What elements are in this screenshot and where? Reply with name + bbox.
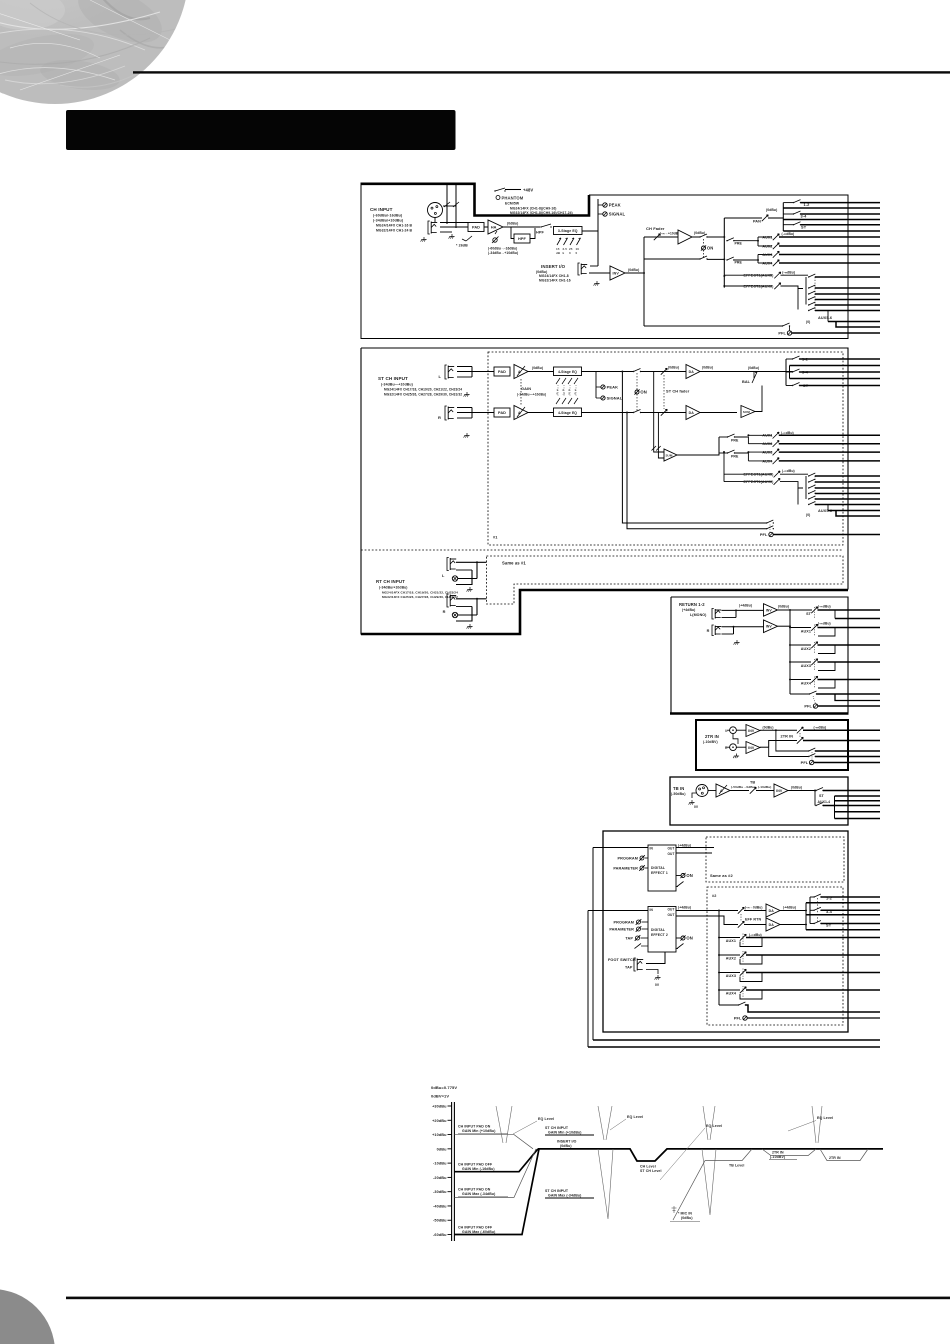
block HPF [514, 234, 530, 243]
ON indicator E2 [680, 935, 692, 940]
svg-text:(0dBu): (0dBu) [532, 366, 543, 370]
svg-text:(-∞dBu): (-∞dBu) [782, 469, 795, 473]
svg-text:(0dBu): (0dBu) [681, 1216, 693, 1220]
wire ST AUX3 row [748, 451, 772, 453]
svg-text:HPF: HPF [518, 237, 526, 241]
pot 2TR R [797, 737, 803, 743]
wire EFF AUX1 bus [746, 937, 880, 939]
wire 2tr gang [799, 733, 801, 738]
grey EQ excursion mic [703, 1106, 708, 1140]
wire TB aux bus 3 [835, 811, 881, 813]
wire bus 1-2 feed [783, 207, 880, 209]
switch ST ON indicator [634, 389, 646, 394]
svg-text:(0dBu): (0dBu) [702, 366, 713, 370]
pot ST AUX4 send [773, 458, 779, 464]
svg-text:* 26dB: * 26dB [456, 244, 468, 248]
pot ST AUX2 send [773, 441, 779, 447]
svg-text:AUX3: AUX3 [762, 451, 772, 455]
svg-text:(+4dBu): (+4dBu) [682, 608, 695, 612]
wire HPF to switch [530, 228, 535, 239]
block 3-Stage EQ [554, 227, 583, 235]
pot ST fader L [661, 368, 667, 374]
wire sum mono out [677, 437, 719, 455]
TB IN section box [670, 777, 848, 825]
wire ST bus tail2 [836, 511, 880, 517]
svg-text:ST: ST [819, 794, 825, 798]
wire EFF AUX3 row [719, 972, 740, 974]
pot ST AUX3 send [773, 449, 779, 455]
pot EFF AUX3 [740, 969, 746, 975]
grey trace TB level [673, 1149, 752, 1220]
svg-text:OUT: OUT [667, 908, 674, 912]
level trace pad on gain max grey [454, 1149, 536, 1198]
block 4-Stage EQ R [554, 408, 582, 417]
svg-text:2TR IN: 2TR IN [772, 1151, 784, 1155]
wire E1 feed bus [593, 1039, 880, 1041]
wire RT L ring [456, 569, 472, 571]
switch ST AUX5-6 assign 2 [808, 479, 816, 483]
wire ST L ring [457, 371, 476, 373]
effects dashed box Same as #2 [706, 837, 844, 882]
svg-text:ON: ON [686, 936, 692, 941]
wire jack ring [440, 226, 470, 228]
wire effrtn gang [740, 914, 742, 921]
wire 2tr pfl gang [811, 752, 813, 760]
svg-text:(0dBu): (0dBu) [766, 208, 777, 212]
svg-text:(-∞dBu): (-∞dBu) [818, 622, 831, 626]
svg-text:AUX2: AUX2 [762, 442, 772, 446]
svg-text:0dBV=1V: 0dBV=1V [431, 1094, 449, 1099]
wire ST bus tail [828, 510, 880, 512]
level trace pad on gain min grey [454, 1135, 533, 1149]
op-amp DA ST R [686, 406, 700, 420]
op-amp DA eff L [766, 904, 780, 917]
wire RETURN PFL bus a [817, 693, 881, 695]
wire EFFECT1 row [724, 274, 772, 276]
axis tick +10dBu [448, 1134, 452, 1136]
switch PRE aux34 [726, 257, 734, 261]
wire ST bus bar B [789, 366, 791, 379]
wire tb pot out [756, 790, 774, 792]
connector foot switch jack [634, 958, 643, 971]
pot ST EQ gang 1 [556, 378, 560, 404]
svg-text:2TR IN: 2TR IN [705, 734, 719, 739]
switch ST PRE aux34 [727, 450, 735, 454]
svg-text:ST CH INPUT: ST CH INPUT [378, 376, 408, 381]
wire TB ST bus [823, 790, 880, 792]
wire ST effect1 to switch [780, 473, 808, 475]
svg-text:OUT: OUT [667, 913, 674, 917]
switch EFF assign 1-2 [810, 896, 814, 898]
switch AUX5-6 assign 6 [808, 308, 816, 312]
wire ST bus 1-2 r [790, 365, 881, 367]
svg-text:AUX4: AUX4 [801, 681, 812, 685]
wire 2TR PFL bus [814, 762, 880, 764]
wire PFL drop [789, 326, 791, 331]
wire insert send [590, 265, 598, 267]
wire ST aux56 out 6 [815, 504, 880, 506]
svg-text:(0dBu): (0dBu) [694, 231, 705, 235]
wire ST R ring [457, 412, 476, 414]
svg-text:+30dBu: +30dBu [432, 1105, 447, 1109]
pot AUX1 send [773, 234, 779, 240]
wire PFL feed [644, 325, 782, 327]
wire ST aux56 out 3 [815, 487, 880, 489]
grey trace 2TR IN [762, 1149, 816, 1156]
wire tb xlr stem [692, 793, 696, 798]
grey EQ excursion ch input [496, 1106, 503, 1143]
wire aux12 pair feed [735, 437, 749, 444]
wire pre row [644, 258, 700, 260]
svg-text:PFL: PFL [804, 704, 812, 709]
wire 2tr L out [760, 729, 797, 731]
switch ST AUX5-6 assign 4 [808, 491, 816, 495]
svg-text:L(MONO): L(MONO) [690, 613, 707, 617]
svg-text:AUX1: AUX1 [762, 434, 772, 438]
level diagram axis [451, 1102, 453, 1241]
header rule [133, 71, 950, 73]
wire EFF AUX4 stub [740, 990, 762, 999]
svg-text:MG32/14FX (CH1-8)(CH9-16)(CH17: MG32/14FX (CH1-8)(CH9-16)(CH17-24) [510, 211, 573, 215]
wire pre tap R [658, 413, 664, 459]
op-amp INV return R [764, 620, 778, 633]
level trace pad off gain max thick [454, 1149, 539, 1235]
wire RETURN AUX2 bus [818, 644, 881, 646]
pot RETURN AUX4 [811, 676, 817, 682]
svg-text:CH INPUT PAD ON: CH INPUT PAD ON [458, 1125, 491, 1129]
svg-text:PEAK: PEAK [609, 203, 621, 208]
wire bus aux56 tail out [828, 321, 880, 323]
connector RCA 2TR R [727, 744, 737, 751]
svg-text:PROGRAM: PROGRAM [617, 857, 638, 861]
pot EQ high [556, 238, 561, 255]
connector phone jack RT R [447, 594, 456, 607]
svg-text:2TR IN: 2TR IN [781, 735, 794, 739]
LED ST PEAK [596, 386, 601, 388]
svg-text:EQ Level: EQ Level [627, 1115, 643, 1119]
switch ST assign ST [786, 385, 792, 387]
svg-text:TB: TB [750, 781, 755, 785]
svg-text:ST: ST [806, 612, 812, 616]
svg-text:4-Stage EQ: 4-Stage EQ [558, 370, 577, 374]
wire EFF AUX2 bus [746, 954, 880, 956]
svg-text:CH INPUT PAD OFF: CH INPUT PAD OFF [458, 1163, 493, 1167]
svg-text:PFL: PFL [778, 331, 786, 336]
ground mark ST L [464, 392, 470, 397]
wire ret L out [778, 609, 813, 611]
pot AUX2 send [773, 243, 779, 249]
wire ST effect2 to stack [780, 482, 803, 488]
pot EQ mid freq [569, 238, 574, 255]
switch ST AUX5-6 assign 3 [808, 485, 816, 489]
svg-text:(0dBu): (0dBu) [778, 605, 789, 609]
wire ST bus bar A [785, 359, 787, 386]
svg-text:R: R [438, 415, 441, 420]
wire tb aux bar [834, 796, 836, 819]
svg-text:EFFECT 2: EFFECT 2 [651, 933, 668, 937]
wire ST R bar [471, 408, 473, 419]
wire ST PFL feed L [622, 372, 766, 524]
ground mark insert [594, 281, 600, 286]
wire aux56 stack bar b [805, 277, 807, 305]
grey EQ excursion st input [598, 1106, 604, 1140]
switch ST PRE aux12 [727, 434, 735, 438]
svg-text:(+4dBu): (+4dBu) [678, 906, 691, 910]
svg-text:ON: ON [686, 873, 692, 878]
block 4-Stage EQ L [554, 367, 582, 376]
wire EFF bus ST [821, 923, 880, 925]
pot ST EQ gang 4 [574, 378, 578, 404]
wire ST aux56 out 2 [815, 481, 880, 483]
wire into PAD [468, 226, 470, 228]
LED PFL ch [787, 331, 791, 335]
svg-text:AUX1: AUX1 [801, 629, 811, 633]
wire RETURN AUX1 bus [818, 627, 881, 629]
pot BAL [752, 372, 757, 383]
svg-text:(0dBu): (0dBu) [507, 222, 518, 226]
svg-text:TB Level: TB Level [729, 1164, 744, 1168]
svg-text:PRE: PRE [735, 261, 743, 265]
svg-text:FOOT SWITCH: FOOT SWITCH [608, 958, 636, 962]
wire ST AUX2 row [748, 443, 772, 445]
svg-text:-40dBu: -40dBu [433, 1204, 447, 1208]
LED EFF PFL [743, 1016, 747, 1020]
block DIGITAL EFFECT 2 [648, 907, 676, 953]
ground mark 2TR [733, 754, 739, 759]
wire ST PFL feed R [627, 413, 767, 529]
switch assign ST [783, 224, 793, 226]
svg-text:AUX2: AUX2 [726, 957, 736, 961]
svg-text:MG24/14FX CH1-8: MG24/14FX CH1-8 [539, 274, 569, 278]
svg-text:* MIC IN: * MIC IN [678, 1212, 692, 1216]
svg-text:SUM: SUM [665, 453, 672, 457]
connector RCA 2TR L [727, 727, 737, 734]
wire gainR to EQ [528, 412, 554, 414]
svg-text:(0dBu): (0dBu) [763, 726, 774, 730]
svg-text:(-34dBu—+10dBu): (-34dBu—+10dBu) [517, 393, 546, 397]
svg-text:PAD: PAD [498, 411, 506, 415]
svg-text:R: R [725, 746, 728, 750]
svg-text:RETURN 1-2: RETURN 1-2 [679, 602, 705, 607]
svg-text:PFL: PFL [801, 760, 809, 765]
wire E2 out a [676, 910, 738, 912]
wire vertical insert node [597, 199, 599, 266]
switch AUX5-6 assign 3 [808, 291, 816, 295]
svg-text:0: 0 [576, 251, 578, 255]
svg-text:ON: ON [707, 246, 713, 251]
wire EFF pfl link [745, 1005, 880, 1012]
wire bus 1-2 [801, 202, 881, 204]
wire EFF AUX3 stub [740, 973, 762, 982]
wire ST AUX2 bus [779, 443, 880, 445]
svg-text:PRE: PRE [731, 439, 739, 443]
svg-text:DIGITAL: DIGITAL [651, 928, 665, 932]
axis tick -30dBu [448, 1191, 452, 1193]
svg-text:PRE: PRE [735, 241, 743, 245]
svg-text:(-∞dBu): (-∞dBu) [782, 271, 795, 275]
wire 2TR pfl bus b [815, 756, 880, 758]
wire AUX3 bus [779, 254, 880, 256]
wire RETURN AUX4 row [790, 679, 811, 681]
wire RETURN ST stub [834, 610, 836, 619]
svg-text:PFL: PFL [760, 532, 768, 537]
svg-text:(-∞→0dBu): (-∞→0dBu) [745, 906, 763, 910]
pot PAN [762, 215, 768, 221]
wire RETURN AUX3 row [790, 661, 811, 663]
pot EFF RTN 1 [738, 907, 744, 913]
svg-text:(-∞→+10dB): (-∞→+10dB) [660, 232, 679, 236]
RETURN box thick bottom [670, 712, 849, 714]
wire tb dist [814, 791, 816, 806]
svg-text:EQ Level: EQ Level [817, 1116, 833, 1120]
svg-text:+48V: +48V [523, 188, 533, 193]
pot ST EQ gang 2 [562, 378, 566, 404]
op-amp INV TB [774, 784, 788, 797]
wire DA L out [700, 371, 793, 373]
svg-text:0V: 0V [655, 983, 660, 987]
svg-text:0dBu=0.775V: 0dBu=0.775V [431, 1085, 457, 1090]
wire RET L ring [722, 617, 737, 619]
wire AUX4 row [758, 262, 772, 264]
pot EQ low [576, 238, 581, 255]
dot fader node [643, 272, 645, 274]
wire E2 feed bus [588, 1046, 880, 1048]
wire 2tr pfl tap L [776, 730, 808, 751]
wire TB aux out [823, 805, 880, 807]
wire 2tr L [737, 729, 747, 731]
svg-text:TAP: TAP [625, 966, 633, 970]
wire ST aux56 out 1 [815, 475, 880, 477]
svg-text:PAD: PAD [498, 370, 506, 374]
wire ST AUX1 bus [779, 434, 880, 436]
wire aux56 out 3 [815, 293, 880, 295]
wire aux56 out 6 [815, 310, 880, 312]
switch ST assign 3-4 [786, 371, 792, 373]
pot TB level [750, 787, 756, 793]
switch EFF PFL [738, 1002, 746, 1006]
svg-text:TAP: TAP [625, 937, 633, 941]
effects dashed box #2 [707, 887, 843, 1025]
wire PAD to HA [484, 226, 488, 228]
wire AUX1 bus [779, 236, 880, 238]
ST CH section left edge [360, 348, 362, 635]
wire EFF AUX3 bus [746, 972, 880, 974]
level trace pad off gain min thick [454, 1149, 538, 1172]
title bar [66, 110, 456, 150]
svg-text:(-50dBu→0dBu): (-50dBu→0dBu) [731, 785, 756, 789]
wire ST L sleeve [457, 376, 468, 378]
axis tick 0dBu [448, 1148, 452, 1150]
svg-text:MG24/14FX (CH1-8)(CH9-16): MG24/14FX (CH1-8)(CH9-16) [510, 207, 556, 211]
switch PRE aux12 [726, 238, 734, 242]
wire 2TR bus L [803, 729, 880, 731]
wire eff gang [817, 898, 819, 923]
svg-text:GAIN: GAIN [521, 386, 531, 391]
wire bus ST [801, 224, 881, 226]
op-amp INV insert return [610, 266, 625, 280]
wire EFF bus 1-2 [821, 896, 880, 898]
wire ST PFL gang [769, 525, 771, 532]
svg-text:L: L [725, 729, 727, 733]
switch TB AUX1-4 [815, 803, 823, 807]
wire da eff R out [780, 924, 806, 926]
wire pan branch [724, 217, 762, 219]
wire ST R to pad [476, 412, 494, 414]
svg-text:BAL: BAL [742, 380, 751, 384]
switch sum in R [656, 446, 661, 451]
svg-text:-10dBu: -10dBu [433, 1162, 447, 1166]
wire bal drop [753, 372, 755, 379]
connector jack RETURN R [712, 625, 721, 636]
wire LED branch bar [595, 372, 597, 399]
pot RETURN AUX2 [811, 642, 817, 648]
svg-text:MG24/14FX CH17/18, CH19/20, CH: MG24/14FX CH17/18, CH19/20, CH21/22, CH2… [384, 388, 462, 392]
svg-text:(0): (0) [806, 320, 810, 324]
wire RETURN pfl mid [835, 694, 880, 701]
svg-text:INV: INV [613, 271, 620, 275]
svg-text:ST CH Level: ST CH Level [640, 1169, 662, 1173]
svg-text:-30dBu: -30dBu [433, 1190, 447, 1194]
switch 2TR PFL a [808, 748, 816, 752]
svg-text:(+4dBu): (+4dBu) [739, 604, 752, 608]
wire EFF AUX1 stub [740, 938, 762, 947]
svg-text:OUT: OUT [667, 852, 674, 856]
wire pre bar ST [718, 437, 720, 455]
wire ret R out [778, 625, 791, 627]
wire E2 in feed [588, 910, 648, 912]
wire insert return [589, 272, 610, 274]
wire RET L tip [722, 609, 764, 611]
svg-text:.5: .5 [562, 392, 565, 396]
wire aux34 pair feed [734, 259, 758, 261]
svg-text:(-∞dBu): (-∞dBu) [818, 605, 831, 609]
svg-text:4-Stage EQ: 4-Stage EQ [558, 411, 577, 415]
svg-text:HA: HA [491, 225, 497, 229]
wire EFF bus 3-4 [821, 909, 880, 911]
wire aux56 out 1 [815, 276, 880, 278]
svg-text:MG24/14FX CH1-16 B: MG24/14FX CH1-16 B [376, 224, 413, 228]
svg-text:AUX3: AUX3 [801, 664, 811, 668]
wire to fader R [641, 412, 687, 414]
wire bus bar A [782, 203, 784, 231]
svg-text:EFFECT1(AUX5): EFFECT1(AUX5) [744, 274, 775, 278]
switch AUX5-6 assign 2 [808, 285, 816, 289]
wire ST AUX1 row [748, 434, 772, 436]
svg-text:Same as #2: Same as #2 [710, 873, 733, 878]
svg-text:ON: ON [640, 390, 646, 395]
svg-text:(-∞dBu): (-∞dBu) [749, 933, 762, 937]
wire RETURN PFL out [818, 705, 880, 707]
switch ST ON R [633, 410, 641, 414]
svg-text:AUX5-6: AUX5-6 [818, 316, 832, 320]
wire EFF AUX2 row [719, 954, 740, 956]
svg-text:ST CH INPUT: ST CH INPUT [545, 1189, 569, 1193]
svg-text:AUX3: AUX3 [762, 253, 772, 257]
connector insert jack [578, 263, 587, 275]
switch ON indicator [701, 245, 713, 250]
svg-text:(0dBu): (0dBu) [668, 366, 679, 370]
CH INPUT section box outline [361, 183, 848, 339]
wire jack sleeve [440, 231, 452, 233]
svg-text:(-50dBu): (-50dBu) [671, 792, 686, 796]
wire RETURN pfl link [813, 696, 816, 704]
svg-text:SUM: SUM [743, 410, 750, 414]
level trace main 0dBu run [538, 1149, 883, 1161]
svg-text:0V: 0V [694, 805, 699, 809]
connector XLR TB [696, 785, 708, 797]
connector phone jack ST R [445, 406, 454, 420]
switch assign 3-4 [783, 213, 793, 215]
